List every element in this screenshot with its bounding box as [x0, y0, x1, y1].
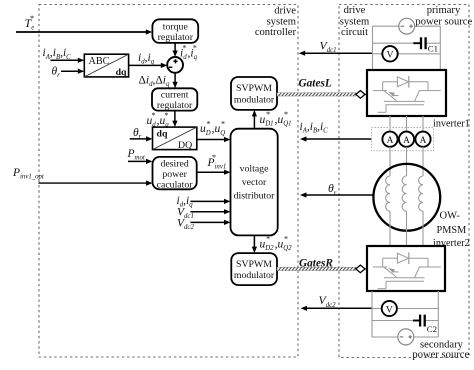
- inverter 2 module box: [367, 246, 445, 291]
- block SVPWM modulator 1: [231, 77, 277, 110]
- wire Vdc2 to distributor: [190, 220, 230, 225]
- svg-text:A: A: [387, 136, 394, 146]
- svg-text:circuit: circuit: [341, 27, 368, 38]
- label theta_r at dq/DQ: [133, 127, 142, 141]
- label Vdc2 distributor input: [177, 218, 194, 232]
- svg-text:OW-: OW-: [440, 210, 461, 221]
- svg-text:primary: primary: [427, 5, 461, 16]
- label inverter2: [433, 238, 470, 249]
- label GatesL: [299, 77, 332, 89]
- svg-text:system: system: [267, 17, 297, 28]
- ammeter dotted box: [372, 128, 434, 151]
- ammeter A phase A: [382, 132, 397, 147]
- label Pmot: [127, 148, 146, 162]
- wire primary voltmeter rail: [373, 53, 441, 55]
- block SVPWM modulator 2: [231, 253, 277, 285]
- block current regulator: [152, 88, 197, 111]
- svg-text:drive: drive: [344, 5, 366, 16]
- label uD1*,uQ1*: [260, 110, 292, 127]
- svg-text:V: V: [386, 50, 393, 61]
- wire theta_r to ABC/dq: [61, 69, 84, 74]
- motor OW-PMSM stator circle: [373, 164, 440, 231]
- svg-text:regulator: regulator: [158, 32, 194, 43]
- svg-text:dq: dq: [116, 67, 127, 78]
- dashed enclosure: drive system controller: [39, 5, 298, 358]
- label id,iq: [138, 52, 155, 66]
- svg-text:modulator: modulator: [234, 270, 275, 281]
- wire Pmot to desired power calculator: [128, 159, 153, 164]
- wire motor windings to inverter2: [390, 211, 423, 246]
- label: primary power source: [415, 5, 472, 28]
- svg-text:DQ: DQ: [178, 140, 192, 151]
- svg-text:voltage: voltage: [240, 163, 269, 174]
- svg-text:caculator: caculator: [157, 179, 194, 190]
- svg-text:GatesL: GatesL: [299, 77, 332, 89]
- svg-text:Δid​,Δiq​: Δid​,Δiq​: [139, 74, 171, 88]
- svg-text:V: V: [386, 304, 393, 315]
- svg-text:inverter1: inverter1: [433, 118, 470, 129]
- label Vdc1: [320, 39, 337, 55]
- voltmeter V primary: [382, 46, 397, 61]
- motor winding phase B: [402, 176, 406, 211]
- label C1: [428, 44, 438, 54]
- capacitor C1: [413, 37, 425, 49]
- wire current regulator to dq/DQ (ud*,uq*): [172, 111, 177, 128]
- wire Te* reference input: [16, 29, 152, 34]
- wire iA,iB,iC measurement to controller: [300, 136, 372, 141]
- wire secondary DC bus right rail: [437, 291, 439, 337]
- inverter 1 module box: [367, 70, 446, 116]
- inverter 2 internal emitter bars: [384, 278, 425, 281]
- svg-text:desired: desired: [160, 158, 188, 169]
- svg-text:power source: power source: [415, 16, 472, 27]
- inverter 1 internal emitter bars: [384, 101, 425, 104]
- label delta id, delta iq: [139, 74, 171, 88]
- wire primary DC bus left rail: [372, 26, 374, 70]
- inverter 2 internal diode: [383, 252, 428, 264]
- inverter 1 internal IGBT right: [415, 82, 441, 101]
- wire id,iq from ABC/dq to summing junction: [129, 63, 168, 68]
- label uD*,uQ*: [200, 119, 225, 136]
- label theta_r measurement: [328, 181, 337, 197]
- label GatesR: [299, 258, 333, 270]
- wire Vdc2 measurement to controller: [301, 306, 373, 311]
- svg-text:GatesR: GatesR: [299, 258, 333, 270]
- svg-text:PMSM: PMSM: [437, 225, 467, 236]
- ammeter A phase B: [399, 132, 414, 147]
- inverter 1 internal diode: [383, 76, 428, 88]
- wire primary DC bus right rail: [439, 26, 441, 70]
- svg-text:power: power: [162, 169, 187, 180]
- capacitor C2: [413, 315, 425, 327]
- inverter 1 internal IGBT left: [373, 82, 399, 101]
- label P*inv1: [207, 153, 227, 170]
- wire dq/DQ to distributor (uD*,uQ*): [197, 137, 231, 142]
- wire secondary bottom rail: [372, 336, 438, 338]
- wire primary top rail: [373, 25, 441, 27]
- label inverter1: [433, 118, 470, 129]
- svg-text:Te*​: Te*​: [25, 14, 35, 31]
- motor winding phase A: [386, 176, 390, 211]
- svg-text:system: system: [340, 16, 370, 27]
- svg-text:ABC: ABC: [89, 56, 110, 67]
- label ud*,uq*: [147, 111, 170, 128]
- wire ammeters to motor windings: [390, 147, 423, 176]
- wire Pinv1_opt to desired power calculator: [39, 181, 153, 186]
- block voltage vector distributor: [231, 129, 278, 236]
- svg-text:power source: power source: [412, 350, 469, 361]
- label Vdc1 distributor input: [177, 207, 194, 221]
- label: secondary power source: [412, 339, 469, 360]
- svg-text:torque: torque: [163, 21, 189, 32]
- label iA,iB,iC input: [43, 47, 72, 61]
- svg-text:distributor: distributor: [234, 191, 276, 202]
- bus GatesL from SVPWM modulator 1 to inverter 1: [277, 91, 367, 99]
- svg-text:A: A: [403, 136, 410, 146]
- wire inverter1 phase outputs: [390, 116, 423, 132]
- label id,iq distributor input: [177, 195, 194, 209]
- svg-text:C2: C2: [427, 324, 437, 334]
- wire primary middle rail: [373, 42, 441, 44]
- bus GatesR from SVPWM modulator 2 to inverter 2: [277, 265, 367, 273]
- wire Vdc1 measurement to controller: [299, 51, 373, 56]
- voltmeter V secondary: [382, 301, 397, 316]
- wire distributor to SVPWM modulator 2 (uD2*,uQ2*): [252, 235, 257, 253]
- svg-text:SVPWM: SVPWM: [236, 83, 272, 94]
- label uD2*,uQ2*: [260, 235, 293, 252]
- svg-text:SVPWM: SVPWM: [236, 259, 272, 270]
- svg-text:A: A: [420, 136, 427, 146]
- block ABC/dq transform: [84, 54, 128, 78]
- block desired power caculator: [153, 157, 197, 191]
- wire iA,iB,iC to ABC/dq: [51, 58, 85, 63]
- svg-text:dq: dq: [157, 129, 168, 140]
- wire distributor to SVPWM modulator 1 (uD1*,uQ1*): [252, 110, 257, 129]
- svg-text:current: current: [161, 90, 189, 101]
- wire torque regulator to summing junction (id*,iq*): [173, 43, 178, 57]
- svg-text:regulator: regulator: [157, 100, 193, 111]
- wire Vdc1 to distributor: [190, 209, 230, 214]
- block dq/DQ transform: [153, 127, 197, 151]
- label Pinv1_opt: [12, 167, 45, 181]
- dashed enclosure: drive system circuit: [339, 5, 469, 358]
- svg-text:modulator: modulator: [234, 94, 275, 105]
- label Te*: [25, 14, 35, 31]
- wire secondary middle rail: [372, 320, 438, 322]
- ammeter A phase C: [415, 132, 430, 147]
- svg-text:controller: controller: [255, 27, 297, 38]
- DC source primary: [399, 18, 415, 34]
- inverter 2 internal IGBT left: [373, 258, 399, 277]
- wire id,iq to distributor: [190, 199, 230, 204]
- label: drive system circuit: [340, 5, 370, 38]
- wire theta_r measurement to controller: [300, 192, 373, 197]
- wire desired power calculator to distributor (P*inv1): [197, 170, 231, 175]
- label iA,iB,iC measurement: [300, 121, 329, 135]
- label Vdc2: [319, 293, 337, 309]
- svg-text:drive: drive: [274, 5, 296, 16]
- label OW-PMSM: [437, 210, 467, 236]
- wire theta_r to dq/DQ: [130, 136, 153, 141]
- block torque regulator: [152, 19, 198, 43]
- label C2: [427, 324, 437, 334]
- label id*,iq*: [180, 44, 198, 61]
- label: drive system controller: [255, 5, 297, 38]
- inverter 2 internal IGBT right: [415, 258, 441, 277]
- DC source secondary: [398, 329, 414, 345]
- svg-text:C1: C1: [428, 44, 438, 54]
- inverter 1 internal gate lead: [378, 105, 387, 113]
- motor winding phase C: [419, 176, 423, 211]
- svg-text:vector: vector: [242, 177, 267, 188]
- wire secondary voltmeter rail: [372, 308, 438, 310]
- wire summing junction to current regulator (delta i): [173, 73, 178, 88]
- inverter 2 internal gate lead: [378, 281, 387, 289]
- label theta_r input: [52, 66, 61, 80]
- wire secondary DC bus left rail: [371, 291, 373, 337]
- summing junction: [167, 57, 183, 73]
